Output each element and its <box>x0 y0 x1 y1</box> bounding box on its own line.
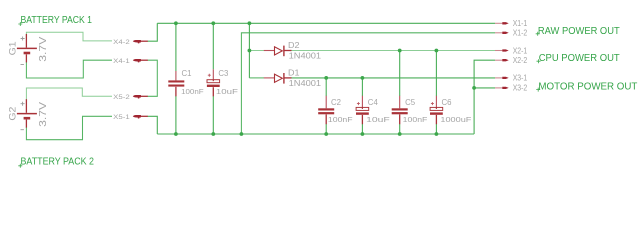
svg-text:C2: C2 <box>331 97 341 107</box>
svg-text:100nF: 100nF <box>403 115 428 124</box>
svg-text:X3-2: X3-2 <box>513 84 528 93</box>
svg-text:X5-1: X5-1 <box>113 114 130 121</box>
wire: D2 anode stub <box>249 50 264 52</box>
connector pin X1-2 <box>495 29 528 38</box>
node: top rail junction at C1 <box>174 21 178 25</box>
wire: D2 cathode net to X2-1 <box>291 50 495 52</box>
battery G1 value 3.7V <box>38 36 49 62</box>
svg-text:X4-2: X4-2 <box>113 39 130 46</box>
svg-text:1N4001: 1N4001 <box>289 51 322 61</box>
label RAW POWER OUT <box>536 26 621 37</box>
wire: G2 plus riser and run to X5-2 <box>26 88 112 100</box>
wire: X4-2 pin to top rail riser <box>148 23 158 41</box>
svg-text:100nF: 100nF <box>181 87 204 96</box>
svg-text:1N4001: 1N4001 <box>289 78 322 88</box>
wire: C2 bottom leg <box>325 124 327 134</box>
node: bottom rail junction at C2 <box>324 132 328 136</box>
wire: G1 plus riser and run to X4-2 <box>26 32 112 41</box>
svg-text:X4-1: X4-1 <box>113 58 130 65</box>
node: bottom rail junction at C5 <box>398 132 402 136</box>
wire: G1 minus down, right, up to X4-1 row <box>26 60 112 78</box>
svg-text:C3: C3 <box>218 68 228 78</box>
wire: C1 top leg <box>175 23 177 71</box>
svg-text:100nF: 100nF <box>328 115 353 124</box>
svg-text:10uF: 10uF <box>366 115 390 124</box>
svg-text:C4: C4 <box>368 97 378 107</box>
svg-text:BATTERY PACK 1: BATTERY PACK 1 <box>21 15 93 26</box>
diode D1 <box>264 68 321 89</box>
node: C6 top junction <box>435 49 439 53</box>
label CPU POWER OUT <box>537 53 621 64</box>
svg-text:G1: G1 <box>8 41 19 55</box>
wire: D1 cathode net to X3-1 <box>291 77 495 79</box>
node: D2 anode junction <box>248 49 252 53</box>
wire: C1 bottom leg <box>175 96 177 134</box>
wire: bottom rail <box>157 133 474 135</box>
wire: X4-1 to X5-2 mid node vertical <box>148 60 158 96</box>
capacitor C5 <box>392 96 428 124</box>
node: X3-2 junction <box>472 86 476 90</box>
battery G1 minus mark <box>21 64 24 66</box>
wire: C4 bottom leg <box>361 124 363 134</box>
svg-text:C5: C5 <box>405 97 415 107</box>
svg-text:C1: C1 <box>182 68 192 78</box>
connector pin X3-1 <box>495 74 528 83</box>
connector pin X5-1 <box>113 114 148 121</box>
connector pin X1-1 <box>495 19 528 28</box>
wire: C3 top leg <box>212 23 214 69</box>
wire: X3-2 stub <box>474 87 495 89</box>
capacitor C2 <box>318 96 353 124</box>
svg-text:MOTOR POWER OUT: MOTOR POWER OUT <box>538 82 638 93</box>
svg-text:X1-2: X1-2 <box>513 29 528 38</box>
wire: C5 top leg <box>399 51 401 97</box>
svg-text:10uF: 10uF <box>216 87 238 96</box>
wire: top rail <box>157 22 495 24</box>
connector pin X4-2 <box>113 39 148 46</box>
svg-text:D2: D2 <box>288 40 300 50</box>
connector pin X5-2 <box>113 94 148 101</box>
connector pin X3-2 <box>495 84 528 93</box>
node: bottom rail junction at C6 <box>435 132 439 136</box>
svg-text:3.7V: 3.7V <box>38 36 49 62</box>
battery G1 plus mark <box>21 37 25 41</box>
wire: C4 top leg <box>361 78 363 96</box>
battery G2 name <box>8 107 19 121</box>
wire: X1-2 net from pin left and down to bottom rail <box>241 33 495 134</box>
svg-text:CPU POWER OUT: CPU POWER OUT <box>539 53 621 64</box>
wire: C2 top leg <box>325 78 327 96</box>
wire: ground riser X2-2 / X3-2 <box>474 60 495 134</box>
svg-text:C6: C6 <box>442 97 452 107</box>
connector pin X2-1 <box>495 46 528 55</box>
wire: X5-1 down to bottom rail <box>148 116 158 134</box>
wire: C5 bottom leg <box>399 124 401 134</box>
wire: D1 anode stub <box>249 77 264 79</box>
node: bottom rail junction at C1 <box>174 132 178 136</box>
node: bottom rail junction at C4 <box>361 132 365 136</box>
node: C2 top junction <box>324 76 328 80</box>
svg-text:BATTERY PACK 2: BATTERY PACK 2 <box>21 157 95 168</box>
battery G1 <box>17 34 37 62</box>
label BATTERY PACK 1 <box>18 15 92 26</box>
capacitor C1 <box>168 68 204 97</box>
capacitor C4 (polarized) <box>356 96 390 124</box>
svg-text:1000uF: 1000uF <box>440 115 471 124</box>
svg-text:D1: D1 <box>288 68 300 78</box>
svg-text:X5-2: X5-2 <box>113 94 130 101</box>
label MOTOR POWER OUT <box>536 82 638 93</box>
wire: C6 top leg <box>435 51 437 97</box>
diode D2 <box>264 40 321 61</box>
battery G2 value 3.7V <box>38 101 49 127</box>
node: top rail junction at diode feed <box>248 21 252 25</box>
battery G2 plus mark <box>21 102 25 106</box>
svg-text:X2-1: X2-1 <box>513 46 528 55</box>
svg-text:RAW POWER OUT: RAW POWER OUT <box>538 26 620 37</box>
wire: diode feed from top rail down to D1 anode <box>248 23 250 78</box>
capacitor C6 (polarized) <box>430 96 472 124</box>
wire: G2 minus down, right, up to X5-1 row <box>26 116 112 139</box>
node: bottom rail junction at X1-2 riser <box>240 132 244 136</box>
battery G1 name <box>8 41 19 55</box>
svg-text:X1-1: X1-1 <box>513 19 528 28</box>
node: C5 top junction <box>398 49 402 53</box>
label BATTERY PACK 2 <box>18 157 94 168</box>
svg-text:X2-2: X2-2 <box>513 56 528 65</box>
wire: C3 bottom leg <box>212 96 214 134</box>
connector pin X2-2 <box>495 56 528 65</box>
battery G2 <box>17 99 37 127</box>
capacitor C3 (polarized) <box>207 68 238 97</box>
battery G2 minus mark <box>21 129 24 131</box>
svg-text:G2: G2 <box>8 107 19 121</box>
wire: C6 bottom leg <box>435 124 437 134</box>
connector pin X4-1 <box>113 58 148 65</box>
node: C4 top junction <box>361 76 365 80</box>
node: top rail junction at C3 <box>211 21 215 25</box>
svg-text:3.7V: 3.7V <box>38 101 49 127</box>
svg-text:X3-1: X3-1 <box>513 74 528 83</box>
node: bottom rail junction at C3 <box>211 132 215 136</box>
